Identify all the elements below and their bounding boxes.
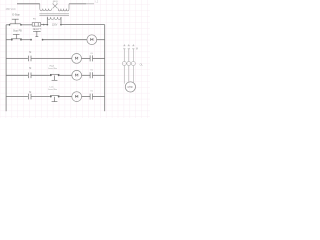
power line phase A — [123, 44, 125, 61]
svg-text:120V: 120V — [52, 24, 58, 27]
transformer T1 secondary leads — [47, 17, 61, 24]
pushbutton E-Stop NC — [10, 19, 21, 24]
wire coil to OL rung 3 — [82, 74, 91, 76]
node switch right terminal rung 3 — [58, 74, 60, 76]
contact OL rung 2 — [90, 55, 92, 61]
rung 3: wire rail to contact M — [6, 74, 28, 76]
switch level SW NC rung 4 — [50, 96, 59, 102]
switch level SW NC rung 3 — [50, 74, 59, 80]
fuse FU body — [32, 23, 41, 26]
contact M aux NO rung 3 — [28, 73, 31, 79]
node X2 terminal dot — [60, 24, 62, 26]
wire OL to right rail — [93, 57, 105, 59]
contact OL rung 4 — [90, 94, 92, 100]
wire coil to OL contact — [82, 57, 91, 59]
rung 1: wire rail to Stop PB — [6, 39, 11, 41]
wire E-stop to left rail corner — [6, 24, 9, 26]
rung 4: wire rail to contact M — [6, 96, 28, 98]
svg-text:E-Stop: E-Stop — [12, 14, 20, 17]
svg-text:M: M — [29, 51, 31, 54]
wire phase A to motor — [123, 65, 125, 83]
wire phase C to motor — [132, 65, 134, 82]
node switch right terminal rung 4 — [58, 96, 60, 98]
node Stop PB right terminal — [20, 39, 22, 41]
svg-text:Start PB: Start PB — [33, 27, 42, 30]
motor MTR — [125, 82, 135, 92]
node Start PB left terminal — [30, 39, 32, 41]
svg-text:Level Sw: Level Sw — [48, 68, 57, 70]
wire secondary feed X1 to fuse — [41, 24, 47, 26]
node Stop PB left terminal — [11, 39, 13, 41]
wire contact to level switch rung 4 — [31, 96, 50, 98]
wire phase B to motor — [128, 65, 130, 82]
node E-Stop right terminal — [20, 24, 22, 26]
wire contact to coil — [31, 57, 72, 59]
svg-text:480 VAC: 480 VAC — [6, 7, 16, 11]
svg-text:Stop PB: Stop PB — [13, 30, 22, 33]
coil rung 3 — [72, 70, 82, 80]
node E-Stop left terminal — [9, 24, 11, 26]
node switch left terminal rung 3 — [50, 74, 52, 76]
node X1 terminal dot — [46, 24, 48, 26]
wire Stop PB to Start PB — [22, 39, 30, 41]
coil R pilot — [72, 54, 82, 64]
wire coil M to right rail — [97, 39, 105, 41]
pushbutton Stop PB NC — [11, 34, 22, 38]
wire OL to right rail rung 3 — [93, 74, 105, 76]
wire L1 top feed left segment — [17, 3, 40, 5]
wire switch to coil rung 3 — [60, 74, 72, 76]
left rail L1 — [5, 25, 7, 111]
wire coil to OL rung 4 — [82, 96, 91, 98]
overload heater phase A — [122, 62, 126, 66]
wire contact to level switch — [31, 74, 50, 76]
power line phase C — [132, 44, 134, 61]
wire secondary feed right to rail — [62, 24, 105, 26]
wire Start PB to coil M — [44, 39, 87, 41]
overload heater phase B — [127, 62, 131, 66]
pushbutton Start PB NO — [33, 31, 41, 36]
wire switch to coil rung 4 — [60, 96, 72, 98]
fuse FU clips — [34, 23, 38, 26]
wire OL to right rail rung 4 — [93, 96, 105, 98]
coil M — [87, 35, 97, 45]
overload heater phase C — [131, 62, 135, 66]
rung 2: wire rail to contact M — [6, 57, 28, 59]
transformer T1 core — [39, 14, 69, 16]
contact M aux NO — [28, 56, 31, 62]
coil rung 4 — [72, 92, 82, 102]
transformer T1 primary tap jumpers X — [53, 3, 58, 9]
transformer T1 primary winding right half — [58, 4, 69, 11]
svg-text:Level Sw: Level Sw — [48, 89, 57, 91]
svg-text:M: M — [29, 67, 31, 70]
svg-text:M: M — [136, 48, 138, 51]
svg-text:480V: 480V — [53, 1, 59, 3]
node switch left terminal rung 4 — [50, 96, 52, 98]
transformer T1 primary winding left half — [40, 4, 52, 11]
contact OL rung 3 — [90, 72, 92, 78]
svg-text:FU: FU — [33, 19, 36, 21]
power line phase B — [128, 44, 130, 61]
wire L2 top feed right segment — [69, 3, 86, 5]
contact M aux NO rung 4 — [28, 94, 31, 100]
wire fuse to E-stop — [22, 24, 32, 26]
svg-text:MTR: MTR — [128, 87, 133, 89]
node fuse terminal dot — [43, 24, 45, 26]
node Start PB right terminal — [42, 39, 44, 41]
transformer T1 secondary winding — [47, 17, 61, 20]
right rail L2 — [104, 25, 106, 112]
svg-text:M: M — [29, 91, 31, 94]
